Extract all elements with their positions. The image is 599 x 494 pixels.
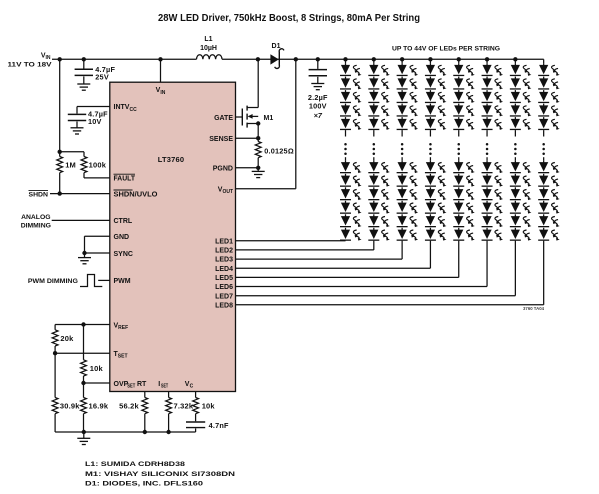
svg-text:D1: D1 [272, 43, 281, 50]
svg-text:SHDN: SHDN [29, 191, 49, 198]
svg-text:25V: 25V [95, 72, 109, 81]
svg-text:LED2: LED2 [215, 248, 233, 255]
svg-text:16.9k: 16.9k [89, 401, 109, 410]
svg-text:LED7: LED7 [215, 293, 233, 300]
svg-text:SHDN/UVLO: SHDN/UVLO [114, 191, 159, 198]
svg-text:SET: SET [127, 384, 136, 390]
svg-text:1M: 1M [65, 161, 76, 170]
svg-text:SET: SET [161, 383, 168, 389]
svg-text:LED5: LED5 [215, 275, 233, 282]
svg-text:SYNC: SYNC [114, 251, 133, 258]
svg-text:LT3760: LT3760 [158, 155, 185, 164]
svg-text:11V TO 18V: 11V TO 18V [8, 62, 53, 69]
svg-text:10V: 10V [88, 117, 102, 126]
svg-text:LED1: LED1 [215, 238, 233, 245]
svg-text:I: I [158, 381, 160, 388]
svg-text:PGND: PGND [213, 166, 233, 173]
svg-text:L1: L1 [204, 36, 212, 43]
svg-text:UP TO 44V OF LEDs PER STRING: UP TO 44V OF LEDs PER STRING [392, 46, 500, 53]
svg-text:10k: 10k [202, 401, 216, 410]
svg-text:0.0125Ω: 0.0125Ω [264, 146, 294, 155]
svg-text:20k: 20k [60, 334, 74, 343]
svg-text:CTRL: CTRL [114, 218, 133, 225]
svg-text:LED8: LED8 [215, 302, 233, 309]
svg-text:ANALOG: ANALOG [21, 214, 50, 221]
svg-text:GATE: GATE [214, 115, 233, 122]
svg-text:10µH: 10µH [200, 45, 217, 52]
svg-text:4.7nF: 4.7nF [209, 421, 229, 430]
svg-text:M1: VISHAY SILICONIX SI7308DN: M1: VISHAY SILICONIX SI7308DN [85, 471, 235, 478]
svg-text:C: C [190, 383, 194, 389]
svg-text:100k: 100k [89, 161, 107, 170]
svg-text:×7: ×7 [314, 111, 323, 120]
svg-text:D1: DIODES, INC. DFLS160: D1: DIODES, INC. DFLS160 [85, 481, 203, 488]
svg-text:7.32k: 7.32k [174, 401, 194, 410]
svg-text:GND: GND [114, 234, 130, 241]
svg-text:30.9k: 30.9k [60, 401, 80, 410]
svg-text:RT: RT [137, 381, 147, 388]
svg-text:10k: 10k [90, 364, 104, 373]
svg-text:56.2k: 56.2k [119, 401, 139, 410]
svg-text:LED3: LED3 [215, 257, 233, 264]
svg-text:SENSE: SENSE [209, 136, 233, 143]
svg-text:FAULT: FAULT [114, 176, 136, 183]
svg-text:28W LED Driver, 750kHz Boost,: 28W LED Driver, 750kHz Boost, 8 Strings,… [158, 13, 420, 24]
svg-text:LED4: LED4 [215, 266, 233, 273]
svg-text:100V: 100V [309, 101, 327, 110]
svg-text:M1: M1 [264, 115, 274, 122]
svg-text:PWM: PWM [114, 278, 131, 285]
svg-text:PWM DIMMING: PWM DIMMING [28, 278, 78, 285]
svg-text:3760 TA04: 3760 TA04 [523, 306, 545, 311]
svg-text:L1: SUMIDA CDRH8D38: L1: SUMIDA CDRH8D38 [85, 461, 185, 468]
svg-text:LED6: LED6 [215, 284, 233, 291]
svg-text:DIMMING: DIMMING [21, 223, 51, 230]
